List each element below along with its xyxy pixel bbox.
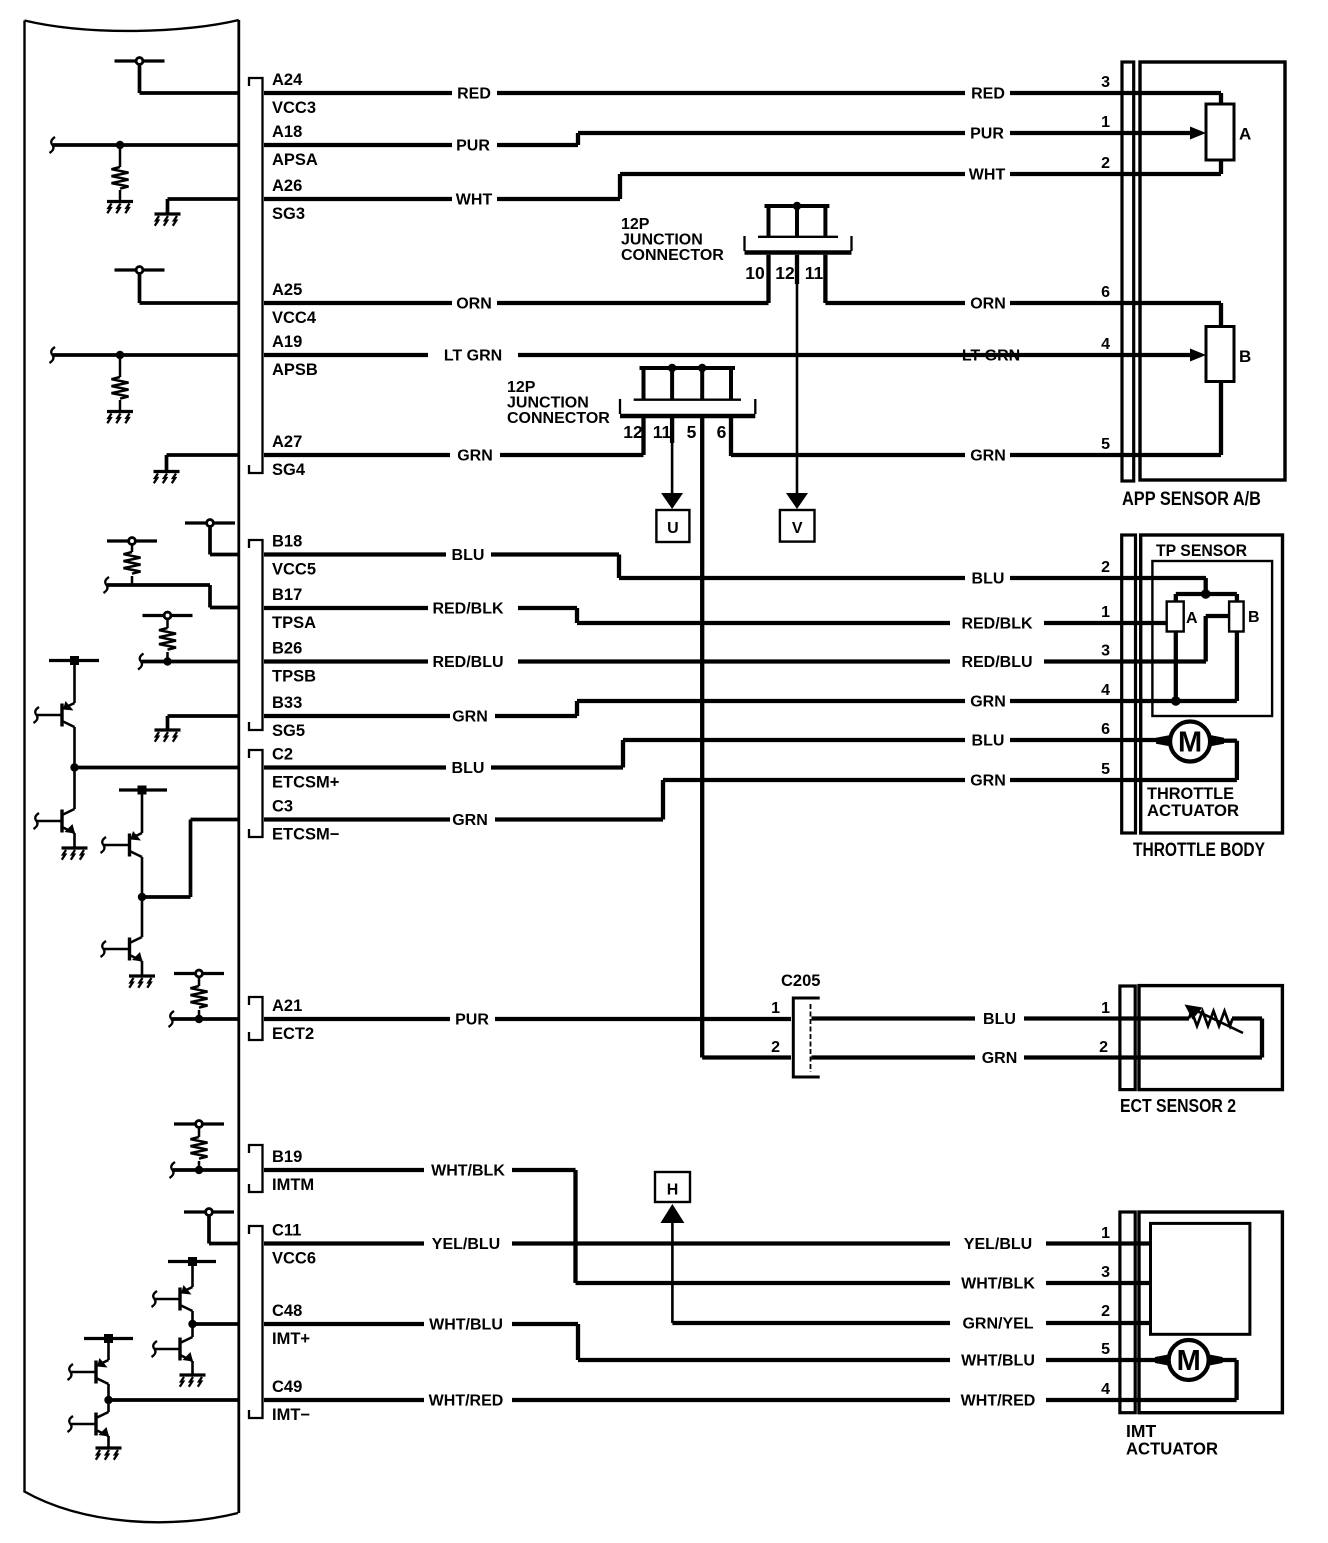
pin B17 label: [272, 586, 302, 604]
label GRN left: [457, 448, 493, 465]
ECM connector bracket pins A24-A27: [249, 78, 263, 473]
junction dot APSB: [116, 351, 124, 359]
svg-text:1: 1: [1101, 114, 1110, 131]
svg-text:C49: C49: [272, 1378, 302, 1396]
svg-text:WHT/BLK: WHT/BLK: [431, 1163, 505, 1180]
junction dot TPSB: [163, 657, 171, 665]
wire WHT/BLU from C48 to IMT actuator pin 5: [264, 1324, 1169, 1360]
svg-text:1: 1: [1101, 604, 1110, 621]
junction dot IMTM: [195, 1166, 203, 1174]
transistor Q6 (NPN): [152, 1325, 194, 1375]
pin A19 label: [272, 333, 302, 351]
pin 11 label: [805, 263, 824, 283]
svg-text:RED/BLK: RED/BLK: [961, 616, 1033, 633]
svg-text:4: 4: [1101, 682, 1110, 699]
ground SG5: [155, 716, 239, 742]
wire ECT2 inside ECM: [169, 1011, 239, 1027]
IMT actuator box: [1139, 1212, 1282, 1413]
arrow into V connector: [786, 493, 808, 509]
svg-text:2: 2: [1101, 559, 1110, 576]
pin 1 label APP: [1101, 114, 1110, 131]
transistor Q2 (NPN): [34, 768, 76, 848]
C205 label: [781, 972, 820, 990]
pin 12 label lower: [623, 422, 643, 442]
motor left lead wedge: [1156, 735, 1171, 747]
svg-text:11: 11: [805, 263, 824, 283]
arrow into potentiometer B: [1190, 349, 1206, 362]
svg-text:A19: A19: [272, 333, 302, 351]
throttle body box: [1141, 535, 1283, 833]
svg-text:B19: B19: [272, 1148, 302, 1166]
APP sensor connector strip: [1122, 62, 1134, 481]
svg-text:IMT−: IMT−: [272, 1406, 310, 1424]
pin 5 label APP: [1101, 436, 1110, 453]
svg-text:ECT SENSOR 2: ECT SENSOR 2: [1120, 1095, 1236, 1116]
resistor on APSA to ground: [112, 145, 129, 201]
pin 1 label TP: [1101, 604, 1110, 621]
svg-text:JUNCTION: JUNCTION: [507, 395, 589, 412]
power node VCC4 inside ECM: [115, 267, 165, 303]
svg-text:APP SENSOR A/B: APP SENSOR A/B: [1122, 489, 1261, 510]
pin net APSA label: [272, 151, 318, 169]
svg-text:BLU: BLU: [452, 547, 485, 564]
ground for APSA resistor: [107, 202, 133, 214]
wire IMT+ inside ECM: [193, 1322, 239, 1326]
svg-text:4: 4: [1101, 336, 1110, 353]
svg-text:YEL/BLU: YEL/BLU: [432, 1236, 500, 1253]
IMT actuator connector strip: [1120, 1212, 1135, 1413]
pin net VCC3 label: [272, 99, 316, 117]
ECM connector bracket pin B19: [249, 1145, 263, 1192]
ECM connector bracket pins C11-C49: [249, 1226, 263, 1418]
junction dot APSA: [116, 141, 124, 149]
svg-text:H: H: [667, 1182, 679, 1199]
potentiometer A: [1206, 104, 1234, 160]
pin net VCC5 label: [272, 561, 316, 579]
label B: [1239, 347, 1251, 366]
lower junction pin 12 stub: [641, 418, 645, 455]
wire RED/BLK from B17 to TP sensor pin 1: [264, 608, 1167, 623]
pin 6 label lower: [717, 422, 727, 442]
svg-text:SG5: SG5: [272, 722, 305, 740]
label RED/BLK right: [961, 616, 1033, 633]
wire IMTM inside ECM: [170, 1162, 239, 1178]
12P junction connector (lower) label: [507, 379, 610, 427]
IMT motor loop wire: [1220, 1360, 1237, 1400]
svg-text:WHT/BLU: WHT/BLU: [429, 1317, 503, 1334]
pin net VCC6 label: [272, 1250, 316, 1268]
svg-text:GRN: GRN: [457, 448, 493, 465]
svg-text:5: 5: [687, 422, 697, 442]
label RED left: [457, 86, 491, 103]
svg-text:TPSA: TPSA: [272, 614, 316, 632]
THROTTLE BODY label: [1133, 840, 1265, 861]
wire GRN from C3 to throttle actuator pin 5: [264, 780, 1122, 820]
svg-text:ACTUATOR: ACTUATOR: [1126, 1439, 1218, 1459]
wire BLU from C2 to throttle actuator pin 6: [264, 740, 1170, 768]
THROTTLE ACTUATOR label: [1147, 784, 1239, 820]
junction dot TP bottom: [1171, 696, 1181, 706]
svg-text:LT GRN: LT GRN: [962, 348, 1020, 365]
svg-text:12P: 12P: [621, 216, 650, 233]
ECM connector bracket pins B18-SG5: [249, 540, 263, 730]
label RED right: [971, 86, 1005, 103]
pin C3 label: [272, 798, 293, 816]
IMT pin 3 label: [1101, 1264, 1110, 1281]
wire PUR from A21 to C205: [264, 1017, 791, 1021]
supply bar for transistor Q7: [84, 1334, 133, 1343]
svg-text:ACTUATOR: ACTUATOR: [1147, 801, 1239, 820]
IMT pin 4 label: [1101, 1381, 1110, 1398]
svg-text:THROTTLE BODY: THROTTLE BODY: [1133, 840, 1265, 861]
power node VCC5 inside ECM: [185, 520, 235, 555]
transistor Q7 (PNP): [68, 1343, 109, 1400]
APP SENSOR A/B label: [1122, 489, 1261, 510]
pin A24 label: [272, 71, 303, 89]
connector H box: [655, 1172, 690, 1202]
potentiometer B: [1206, 327, 1234, 382]
svg-text:APSA: APSA: [272, 151, 318, 169]
ECM connector bracket pin A21: [249, 997, 263, 1040]
label GRN C3 right: [970, 773, 1006, 790]
label BLU left: [452, 547, 485, 564]
pin net IMT− label: [272, 1406, 310, 1424]
pin 12 label: [775, 263, 795, 283]
label LT GRN right: [962, 348, 1020, 365]
ground for transistor Q8: [96, 1448, 122, 1460]
ECT pin 1 label: [1101, 1000, 1110, 1017]
12P junction connector (lower) jumper loops: [640, 368, 736, 399]
svg-text:B18: B18: [272, 533, 302, 551]
pin 11 label lower: [653, 422, 672, 442]
label BLU C2 left: [452, 760, 485, 777]
label GRN B33 left: [452, 709, 488, 726]
svg-text:3: 3: [1101, 1264, 1110, 1281]
wire A24 inside ECM: [140, 91, 239, 95]
label BLU C2 right: [972, 733, 1005, 750]
motor right lead wedge: [1210, 735, 1225, 747]
svg-text:B17: B17: [272, 586, 302, 604]
pin 6 label APP: [1101, 284, 1110, 301]
svg-text:6: 6: [1101, 721, 1110, 738]
svg-text:SG4: SG4: [272, 461, 306, 479]
pin net ECT2 label: [272, 1025, 314, 1043]
lower junction pin 6 stub: [729, 418, 733, 456]
svg-text:ETCSM+: ETCSM+: [272, 774, 339, 792]
junction dot IMT+: [188, 1320, 196, 1328]
svg-text:GRN: GRN: [970, 694, 1006, 711]
svg-text:WHT/BLK: WHT/BLK: [961, 1276, 1035, 1293]
ECT sensor connector strip: [1120, 986, 1135, 1090]
label BLU right: [972, 571, 1005, 588]
12P junction connector (lower) body: [620, 399, 755, 416]
svg-text:2: 2: [1101, 1303, 1110, 1320]
pin net SG4 label: [272, 461, 306, 479]
label GRN right: [970, 448, 1006, 465]
wire WHT/RED from C49 to IMT actuator pin 4: [264, 1398, 1237, 1402]
svg-text:10: 10: [745, 263, 765, 283]
pin net SG3 label: [272, 205, 305, 223]
TP SENSOR label: [1156, 541, 1247, 560]
svg-text:12P: 12P: [507, 379, 536, 396]
upper junction pin 11 stub: [823, 255, 827, 303]
svg-text:2: 2: [1099, 1039, 1108, 1056]
upper junction pin 10 stub: [766, 255, 770, 303]
supply bar for transistor Q1: [49, 656, 99, 665]
connector U box: [656, 510, 689, 542]
pin net IMT+ label: [272, 1330, 310, 1348]
label WHT/RED left: [429, 1393, 504, 1410]
svg-text:2: 2: [771, 1039, 780, 1056]
svg-text:ORN: ORN: [456, 296, 492, 313]
junction dot TP top: [1201, 589, 1211, 599]
label WHT/BLU left: [429, 1317, 503, 1334]
svg-text:WHT/RED: WHT/RED: [961, 1393, 1036, 1410]
ground SG4: [154, 455, 239, 483]
wire WHT from A26 to APP sensor pin 2: [264, 160, 1221, 199]
transistor Q8 (NPN): [68, 1401, 110, 1448]
ECT thermistor arrow: [1185, 1005, 1244, 1034]
label GRN/YEL: [962, 1316, 1033, 1333]
pin net APSB label: [272, 361, 318, 379]
svg-text:C11: C11: [272, 1222, 301, 1240]
svg-text:VCC5: VCC5: [272, 561, 316, 579]
pin A25 label: [272, 281, 302, 299]
svg-text:A21: A21: [272, 997, 302, 1015]
wire GRN/YEL with arrow to H: [660, 1204, 1150, 1323]
power node and resistor for IMTM: [174, 1121, 224, 1170]
label PUR left: [456, 138, 490, 155]
ground for transistor Q2: [62, 848, 88, 860]
ECT sensor thermistor: [1189, 1011, 1262, 1058]
wire WHT/BLK from B19 to IMT actuator pin 3: [264, 1170, 1151, 1283]
wire GRN from C205 to ECT sensor pin 2: [812, 1055, 1263, 1059]
svg-text:A18: A18: [272, 123, 302, 141]
svg-text:SG3: SG3: [272, 205, 305, 223]
power node and resistor for TPSB: [143, 612, 193, 661]
svg-text:ORN: ORN: [970, 296, 1006, 313]
pin net ETCSM− label: [272, 826, 339, 844]
power node and resistor for TPSA: [107, 538, 157, 585]
lower junction pin 11 stub wire to U: [670, 418, 674, 496]
svg-text:3: 3: [1101, 74, 1110, 91]
power node VCC6 inside ECM: [184, 1209, 234, 1244]
svg-text:BLU: BLU: [983, 1011, 1016, 1028]
svg-text:12: 12: [775, 263, 795, 283]
svg-text:GRN/YEL: GRN/YEL: [962, 1316, 1033, 1333]
IMT motor left lead wedge: [1155, 1354, 1170, 1366]
svg-text:5: 5: [1101, 761, 1110, 778]
pin C48 label: [272, 1302, 302, 1320]
pin 5 label lower: [687, 422, 697, 442]
C205 pin 2 label: [771, 1039, 780, 1056]
wire RED from A24 to APP sensor pin 3: [264, 93, 1221, 105]
svg-text:5: 5: [1101, 436, 1110, 453]
svg-text:C48: C48: [272, 1302, 302, 1320]
svg-text:A: A: [1186, 610, 1198, 627]
svg-text:A24: A24: [272, 71, 303, 89]
ECT sensor 2 box: [1139, 986, 1282, 1090]
IMT pin 5 label: [1101, 1341, 1110, 1358]
throttle body connector strip: [1122, 535, 1136, 833]
svg-text:4: 4: [1101, 1381, 1110, 1398]
svg-text:A27: A27: [272, 433, 302, 451]
svg-text:M: M: [1177, 1345, 1201, 1377]
pin C49 label: [272, 1378, 302, 1396]
wire APSB inside ECM: [50, 347, 239, 363]
svg-text:PUR: PUR: [455, 1012, 489, 1029]
pin net SG5 label: [272, 722, 305, 740]
IMT ACTUATOR label: [1126, 1421, 1218, 1459]
pin B33 label: [272, 694, 302, 712]
svg-text:C3: C3: [272, 798, 293, 816]
IMT motor right lead wedge: [1208, 1354, 1223, 1366]
pin 5 label TB: [1101, 761, 1110, 778]
svg-text:5: 5: [1101, 1341, 1110, 1358]
svg-text:BLU: BLU: [972, 733, 1005, 750]
pin A27 label: [272, 433, 302, 451]
wire B18 inside ECM: [210, 553, 238, 557]
pin 2 label TP: [1101, 559, 1110, 576]
svg-text:TPSB: TPSB: [272, 668, 316, 686]
svg-text:RED/BLU: RED/BLU: [432, 654, 503, 671]
wire LT GRN from A19 to APP sensor pin 4: [264, 353, 1190, 357]
ECM box outline (torn top and bottom edges): [24, 20, 239, 1522]
svg-text:PUR: PUR: [456, 138, 490, 155]
power node and resistor for ECT2: [174, 970, 224, 1019]
supply bar for transistor Q3: [119, 786, 167, 795]
svg-text:VCC3: VCC3: [272, 99, 316, 117]
label WHT right: [969, 167, 1006, 184]
arrow into potentiometer A: [1190, 127, 1206, 140]
C205 pin 1 label: [771, 1000, 780, 1017]
pin 6 label TB: [1101, 721, 1110, 738]
svg-text:1: 1: [1101, 1000, 1110, 1017]
ECT pin 2 label: [1099, 1039, 1108, 1056]
label RED/BLK left: [432, 601, 504, 618]
wire GRN from B33 to TP sensor pin 4: [264, 701, 1237, 716]
svg-text:A: A: [1239, 125, 1251, 144]
supply bar for transistor Q5: [168, 1257, 216, 1266]
svg-text:C2: C2: [272, 746, 293, 764]
svg-text:C205: C205: [781, 972, 820, 990]
connector V box: [780, 510, 815, 542]
pin net TPSA label: [272, 614, 316, 632]
label ORN left: [456, 296, 492, 313]
svg-text:ETCSM−: ETCSM−: [272, 826, 339, 844]
12P junction connector (upper) body: [745, 236, 852, 253]
svg-text:B33: B33: [272, 694, 302, 712]
label A: [1239, 125, 1251, 144]
svg-text:GRN: GRN: [970, 448, 1006, 465]
svg-text:B: B: [1239, 347, 1251, 366]
label LT GRN left: [444, 348, 502, 365]
pin net ETCSM+ label: [272, 774, 339, 792]
power node VCC3 inside ECM: [115, 58, 165, 93]
svg-text:APSB: APSB: [272, 361, 318, 379]
svg-text:V: V: [792, 520, 803, 537]
throttle actuator motor loop wire: [1122, 741, 1237, 780]
wire IMT- inside ECM: [109, 1398, 239, 1402]
wire ORN from A25 to APP sensor pin 6: [264, 303, 1221, 327]
ground SG3: [155, 199, 239, 226]
svg-text:3: 3: [1101, 643, 1110, 660]
svg-text:LT GRN: LT GRN: [444, 348, 502, 365]
label YEL/BLU right: [964, 1236, 1032, 1253]
pin 10 label: [745, 263, 765, 283]
transistor Q3 (PNP): [101, 794, 143, 897]
APP sensor box: [1140, 62, 1285, 480]
IMT pin 2 label: [1101, 1303, 1110, 1320]
throttle actuator motor M: [1170, 722, 1210, 762]
label WHT/BLU right: [961, 1353, 1035, 1370]
junction dot on upper connector loop: [793, 202, 801, 210]
IMT pin 1 label: [1101, 1225, 1110, 1242]
svg-text:ECT2: ECT2: [272, 1025, 314, 1043]
12P junction connector (upper) jumper loops: [765, 206, 830, 236]
svg-text:BLU: BLU: [972, 571, 1005, 588]
TP sensor inner box: [1152, 561, 1272, 716]
transistor Q1 (PNP): [34, 665, 75, 768]
svg-text:6: 6: [1101, 284, 1110, 301]
label GRN ECT: [982, 1050, 1018, 1067]
connector C205: [793, 998, 819, 1077]
label RED/BLU left: [432, 654, 503, 671]
wire TPSA inside ECM: [104, 577, 239, 608]
pin C11 label: [272, 1222, 301, 1240]
svg-text:B: B: [1248, 609, 1260, 626]
label GRN C3 left: [452, 812, 488, 829]
svg-text:WHT: WHT: [456, 192, 493, 209]
label WHT/RED right: [961, 1393, 1036, 1410]
ground for transistor Q6: [180, 1375, 206, 1387]
junction dot IMT-: [104, 1396, 112, 1404]
svg-text:RED/BLK: RED/BLK: [432, 601, 504, 618]
svg-text:1: 1: [771, 1000, 780, 1017]
junction dots on lower connector loop: [668, 364, 707, 372]
label ORN right: [970, 296, 1006, 313]
svg-text:IMTM: IMTM: [272, 1176, 314, 1194]
svg-text:TP SENSOR: TP SENSOR: [1156, 541, 1247, 560]
pin A18 label: [272, 123, 302, 141]
ECM connector bracket pins C2-C3: [249, 750, 263, 837]
svg-text:BLU: BLU: [452, 760, 485, 777]
ECT SENSOR 2 label: [1120, 1095, 1236, 1116]
label WHT left: [456, 192, 493, 209]
wire RED/BLU from B26 to TP sensor pin 3: [264, 616, 1229, 662]
pin net TPSB label: [272, 668, 316, 686]
ground for transistor Q4: [129, 976, 155, 988]
pin 2 label APP: [1101, 155, 1110, 172]
svg-text:RED/BLU: RED/BLU: [961, 654, 1032, 671]
pin 3 label TP: [1101, 643, 1110, 660]
TP sensor pot B bottom wire: [1235, 631, 1239, 701]
pin A21 label: [272, 997, 302, 1015]
svg-text:U: U: [667, 520, 679, 537]
ground for APSB resistor: [107, 412, 133, 424]
svg-text:JUNCTION: JUNCTION: [621, 232, 703, 249]
svg-text:GRN: GRN: [982, 1050, 1018, 1067]
svg-text:11: 11: [653, 422, 672, 442]
svg-text:A25: A25: [272, 281, 302, 299]
label BLU ECT: [983, 1011, 1016, 1028]
junction dot ETCSM+: [70, 763, 78, 771]
IMT actuator inner body: [1151, 1223, 1250, 1334]
pin B18 label: [272, 533, 302, 551]
pin net VCC4 label: [272, 309, 317, 327]
wire YEL/BLU from C11 to IMT actuator pin 1: [264, 1241, 1151, 1245]
svg-text:PUR: PUR: [970, 126, 1004, 143]
